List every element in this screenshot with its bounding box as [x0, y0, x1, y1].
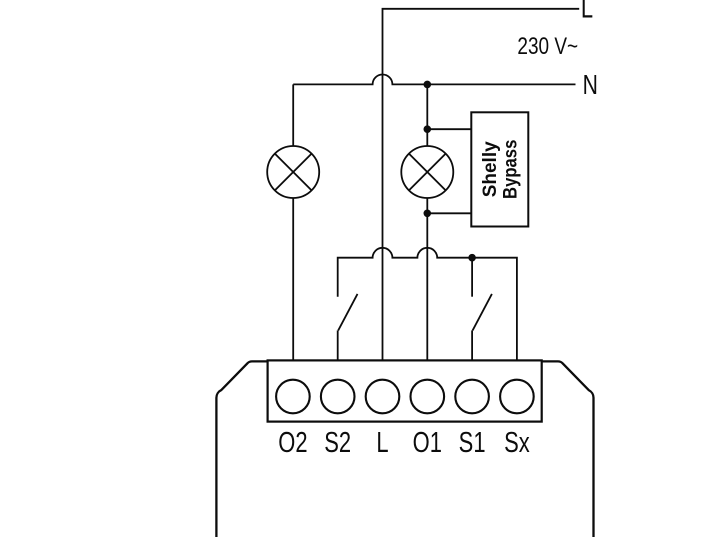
terminal S1 — [455, 380, 489, 414]
terminal O1 — [411, 380, 445, 414]
wire L line (top horizontal to label L) — [383, 9, 580, 361]
terminal block — [268, 360, 542, 421]
svg-text:L: L — [376, 427, 388, 458]
node N label — [583, 71, 598, 101]
wire bus junction down to switch SW2 — [471, 258, 473, 297]
junction dot on bus at S1 branch — [468, 254, 476, 262]
terminal Sx — [500, 380, 534, 414]
junction dot lower bypass tap — [424, 210, 432, 218]
pin label L — [376, 427, 388, 458]
svg-text:L: L — [581, 0, 593, 24]
svg-text:230 V~: 230 V~ — [517, 32, 578, 60]
wire switch bus (with hops over L and O1 wires) — [338, 248, 517, 361]
junction dot upper bypass tap — [424, 125, 432, 133]
svg-text:S2: S2 — [324, 427, 351, 458]
pin label O2 — [278, 427, 307, 458]
svg-text:Sx: Sx — [504, 427, 530, 458]
lamp E2 (left) — [267, 146, 319, 198]
svg-text:O1: O1 — [413, 427, 442, 458]
switch SW1 blade — [338, 294, 357, 331]
svg-text:O2: O2 — [278, 427, 307, 458]
wire from lamp E2 down to terminal O2 — [292, 198, 294, 361]
wire switch SW2 to terminal S1 — [471, 330, 473, 360]
device body outline (Shelly relay) — [216, 361, 593, 537]
Shelly Bypass label — [480, 140, 522, 199]
pin label Sx — [504, 427, 530, 458]
pin label S2 — [324, 427, 351, 458]
value label 230 V~ — [517, 32, 578, 60]
wire lower tap to Shelly Bypass — [427, 212, 471, 214]
wire from lamp E1 down to terminal O1 — [426, 198, 428, 360]
wire from N junction down to lamp E1 — [426, 84, 428, 146]
wire N line (horizontal with hop over L wire) — [293, 75, 575, 85]
terminal O2 — [276, 380, 310, 414]
svg-text:N: N — [583, 71, 598, 101]
switch SW2 blade — [473, 294, 492, 331]
node L label — [581, 0, 593, 24]
wire upper tap to Shelly Bypass — [427, 128, 471, 130]
pin label S1 — [459, 427, 486, 458]
junction dot on N line at O1 branch — [424, 81, 432, 89]
lamp E1 (right) — [401, 146, 453, 198]
terminal S2 — [321, 380, 355, 414]
Shelly Bypass box — [471, 112, 528, 226]
svg-text:S1: S1 — [459, 427, 486, 458]
pin label O1 — [413, 427, 442, 458]
wire switch SW1 to terminal S2 — [337, 330, 339, 360]
wire from N down to lamp E2 — [292, 84, 294, 146]
svg-text:ShellyBypass: ShellyBypass — [480, 140, 522, 199]
terminal L — [366, 380, 400, 414]
